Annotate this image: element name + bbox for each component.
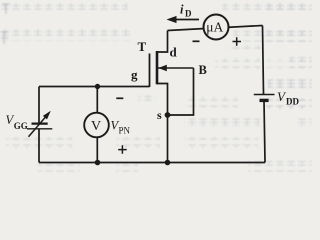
wire: bottom rail [39, 162, 265, 164]
wire: voltmeter branch lower [96, 137, 98, 162]
transistor T: source lead [157, 84, 168, 163]
wire: left side upper (VGG battery up to gate corner) [38, 87, 40, 124]
label iD [180, 3, 192, 19]
wire: gate rail (left corner to gate bar) [39, 86, 150, 88]
transistor T: drain lead [157, 31, 168, 53]
label plus (voltmeter bottom) [118, 145, 127, 154]
svg-text:s: s [157, 108, 162, 122]
wire: left side lower (bottom corner up to VGG battery) [38, 129, 40, 163]
ammeter uA [204, 15, 229, 40]
label VPN [111, 119, 131, 136]
svg-text:V: V [91, 119, 101, 134]
label VDD [277, 89, 299, 107]
wire: right side lower (VDD to bottom corner) [264, 100, 265, 162]
battery VDD [254, 95, 275, 101]
label plus (ammeter right) [233, 37, 242, 46]
svg-text:DD: DD [286, 97, 299, 107]
voltmeter V (V_PN) [84, 113, 109, 138]
svg-text:d: d [170, 45, 178, 60]
transistor T: channel bar [156, 51, 159, 84]
svg-text:i: i [180, 3, 184, 17]
svg-text:D: D [185, 9, 192, 19]
transistor T: bulk arrow into channel [158, 65, 194, 71]
transistor T: gate bar [149, 54, 151, 88]
node: junction dot voltmeter-bottom rail [95, 160, 101, 166]
current arrow iD [167, 16, 200, 23]
svg-text:T: T [138, 39, 147, 54]
wire: top drain wire to ammeter and right corner [168, 26, 263, 31]
svg-text:PN: PN [119, 126, 131, 136]
svg-text:GG: GG [14, 121, 28, 131]
wire: right side upper (to VDD battery) [263, 26, 264, 95]
battery VGG (variable) [27, 124, 52, 129]
label minus (ammeter left) [193, 40, 200, 42]
wire: voltmeter branch upper [96, 87, 98, 113]
svg-text:g: g [131, 67, 138, 82]
node: source junction dot (s) [165, 112, 171, 118]
svg-text:μA: μA [206, 20, 223, 35]
label VGG [6, 113, 28, 131]
node: source-bottom rail junction dot [165, 160, 171, 166]
variable arrow across VGG [29, 111, 51, 137]
label minus (voltmeter top) [116, 97, 123, 99]
node: junction dot on gate rail [95, 84, 100, 89]
wire: bulk lead down to source [168, 68, 194, 115]
svg-text:B: B [199, 63, 207, 77]
